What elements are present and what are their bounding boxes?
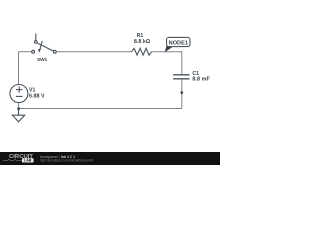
svg-text:SW1: SW1 <box>37 57 47 63</box>
footer logo LAB box <box>22 158 34 162</box>
voltage source V1 <box>10 85 28 103</box>
wire right rail upper <box>181 51 183 74</box>
svg-text:LAB: LAB <box>24 159 32 163</box>
wire left rail <box>18 52 20 85</box>
svg-text:8.8 kΩ: 8.8 kΩ <box>134 39 151 45</box>
wire resistor to corner <box>152 51 182 53</box>
capacitor C1 <box>173 75 189 79</box>
svg-text:V1: V1 <box>29 87 35 93</box>
node callout NODE1 <box>165 37 190 52</box>
footer logo wave <box>3 159 22 161</box>
wire bottom <box>19 108 182 110</box>
junction dot ground node <box>17 108 19 110</box>
wire V1 bottom stub <box>18 102 20 108</box>
junction dot cap bottom <box>181 91 183 93</box>
svg-text:NODE1: NODE1 <box>169 40 188 46</box>
footer bar <box>0 152 220 165</box>
ground <box>12 109 24 122</box>
svg-text:8.8 mF: 8.8 mF <box>192 76 210 82</box>
svg-text:6.88 V: 6.88 V <box>29 94 45 100</box>
switch SW1 <box>32 34 56 54</box>
wire top-left horizontal <box>19 51 32 53</box>
wire right rail lower <box>181 79 183 109</box>
svg-text:http://circuitlab.com/c6kzn45d: http://circuitlab.com/c6kzn45d9oym7k <box>40 159 94 163</box>
wire switch to resistor <box>56 51 131 53</box>
resistor R1 <box>132 48 152 55</box>
svg-text:R1: R1 <box>137 33 144 39</box>
